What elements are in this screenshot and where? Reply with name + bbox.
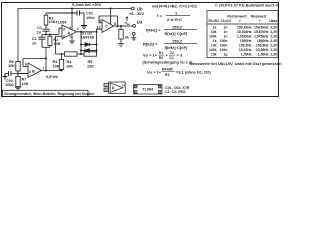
svg-text:1,59Hz: 1,59Hz <box>241 53 252 57</box>
svg-text:159,2Hz: 159,2Hz <box>239 44 252 48</box>
op-amp U1B <box>18 59 62 78</box>
svg-text:100n: 100n <box>86 16 95 20</box>
svg-text:1,592kHz: 1,592kHz <box>237 35 252 39</box>
svg-text:15,92Hz: 15,92Hz <box>239 48 252 52</box>
node supply junction <box>71 8 73 10</box>
svg-text:Messwerte bei Ub=10V, Uass mit: Messwerte bei Ub=10V, Uass mit Oszi geme… <box>190 61 283 66</box>
resistor R8 <box>118 26 124 47</box>
svg-text:f[kHz]·C[nF]: f[kHz]·C[nF] <box>165 45 189 50</box>
symbol sine arrow <box>125 17 130 25</box>
resistor R1 <box>44 13 48 29</box>
svg-text:15,92kHz: 15,92kHz <box>237 30 252 34</box>
svg-text:7: 7 <box>43 67 45 71</box>
svg-text:11: 11 <box>70 35 74 39</box>
svg-text:Rechenwert: Rechenwert <box>227 15 247 19</box>
wire left Ub drop <box>17 9 19 62</box>
svg-text:= 3: = 3 <box>177 53 183 58</box>
svg-text:R3: R3 <box>53 60 58 64</box>
wire midrail node <box>11 73 28 75</box>
svg-text:(Schwingbedingung Vu ≥ 3): (Schwingbedingung Vu ≥ 3) <box>143 61 193 65</box>
svg-text:100n: 100n <box>220 48 228 52</box>
svg-text:R4+R5: R4+R5 <box>162 68 173 72</box>
svg-text:10k: 10k <box>211 30 217 34</box>
svg-text:2,3V: 2,3V <box>270 26 278 30</box>
svg-text:C1, C2: FKS: C1, C2: FKS <box>165 90 186 94</box>
svg-text:C1=C2: C1=C2 <box>221 19 232 23</box>
svg-text:+6...30V: +6...30V <box>129 11 144 16</box>
svg-text:10K: 10K <box>22 82 29 86</box>
svg-text:R1: R1 <box>159 51 163 55</box>
svg-text:10K: 10K <box>53 65 60 69</box>
svg-text:R3: R3 <box>165 73 169 77</box>
svg-text:C2: C2 <box>32 37 37 41</box>
resistor R3 <box>59 54 63 72</box>
svg-text:C: C <box>105 25 108 29</box>
svg-text:Vu = 1+: Vu = 1+ <box>147 70 162 75</box>
caption box <box>3 90 89 96</box>
svg-text:2,3V: 2,3V <box>270 35 278 39</box>
svg-text:C02: C02 <box>6 79 13 83</box>
svg-text:1: 1 <box>77 27 79 31</box>
wire C2 R2 to buffered midrail <box>42 47 50 59</box>
wire diode branch verticals <box>80 31 97 54</box>
svg-text:≈3,1 (ohne D1, D2): ≈3,1 (ohne D1, D2) <box>176 70 211 75</box>
op-amp U1A <box>56 9 77 45</box>
capacitor C02 <box>3 71 11 80</box>
svg-text:Ua: Ua <box>137 20 143 25</box>
svg-text:mit R=R1=R2, C=C1=C2: mit R=R1=R2, C=C1=C2 <box>152 4 198 9</box>
capacitor C2 <box>39 35 46 48</box>
svg-text:Uass: Uass <box>269 19 277 23</box>
SCHEMATIC <box>18 8 131 62</box>
svg-text:9: 9 <box>99 19 101 23</box>
svg-text:6: 6 <box>25 63 27 67</box>
wire opamp A output <box>77 29 103 33</box>
svg-text:f[kHz] =: f[kHz] = <box>146 28 161 33</box>
svg-text:1n: 1n <box>224 35 228 39</box>
svg-text:13: 13 <box>104 88 108 92</box>
IC package TL084 <box>134 85 163 95</box>
svg-text:15,58Hz: 15,58Hz <box>256 48 269 52</box>
svg-text:100n: 100n <box>5 83 14 87</box>
svg-text:1k: 1k <box>213 39 217 43</box>
svg-text:TL084: TL084 <box>56 21 68 25</box>
svg-text:1k: 1k <box>213 26 217 30</box>
terminal Ua <box>133 25 136 28</box>
wire Ub rail <box>18 8 131 10</box>
svg-text:R7: R7 <box>22 77 27 81</box>
svg-text:R5: R5 <box>88 60 93 64</box>
svg-text:Vu = 1+: Vu = 1+ <box>143 53 158 58</box>
resistor R5 <box>84 52 97 56</box>
svg-text:0,5*Ub: 0,5*Ub <box>46 75 58 79</box>
svg-text:2: 2 <box>63 35 65 39</box>
resistor R6 <box>16 62 20 75</box>
svg-text:2,3V: 2,3V <box>270 48 278 52</box>
svg-text:1µ: 1µ <box>224 53 228 57</box>
wire gain leg <box>56 36 65 55</box>
svg-text:© 2015-01-07 P.E.Burkhardt mec: © 2015-01-07 P.E.Burkhardt mec1-9 <box>215 4 278 8</box>
svg-text:1n: 1n <box>37 30 42 34</box>
svg-text:159,2kHz: 159,2kHz <box>237 26 252 30</box>
svg-text:159,2: 159,2 <box>172 39 183 44</box>
svg-text:2,3V: 2,3V <box>270 39 278 43</box>
svg-text:1,56Hz: 1,56Hz <box>258 53 269 57</box>
svg-text:R[kΩ]·C[nF]: R[kΩ]·C[nF] <box>165 31 188 36</box>
svg-text:14: 14 <box>122 84 126 88</box>
svg-text:12K: 12K <box>87 65 94 69</box>
capacitor C01 <box>46 11 87 29</box>
svg-text:Messwert: Messwert <box>251 15 267 19</box>
svg-text:R1=R2: R1=R2 <box>209 19 220 23</box>
border frame <box>2 3 279 97</box>
svg-text:2,3V: 2,3V <box>270 53 278 57</box>
svg-text:100k: 100k <box>209 48 217 52</box>
svg-text:10k: 10k <box>211 44 217 48</box>
svg-text:C1: C1 <box>37 26 42 30</box>
svg-text:12: 12 <box>104 83 108 87</box>
svg-text:159,2: 159,2 <box>172 25 183 30</box>
terminal GND out <box>131 32 136 40</box>
svg-text:8: 8 <box>114 22 116 26</box>
wire Wien node <box>42 28 62 35</box>
svg-text:1n: 1n <box>224 30 228 34</box>
svg-text:3: 3 <box>63 28 65 32</box>
diode D2 <box>80 49 98 53</box>
svg-text:1580Hz: 1580Hz <box>257 39 269 43</box>
svg-text:1,575kHz: 1,575kHz <box>254 35 269 39</box>
label package pins <box>135 85 161 94</box>
svg-text:2,3V: 2,3V <box>270 44 278 48</box>
svg-text:10K: 10K <box>54 42 61 46</box>
svg-text:10k: 10k <box>211 53 217 57</box>
svg-text:B: B <box>32 70 35 74</box>
terminal Ub <box>131 7 134 10</box>
svg-text:100n: 100n <box>220 44 228 48</box>
svg-text:156,8Hz: 156,8Hz <box>256 44 269 48</box>
svg-text:C01: C01 <box>86 12 93 16</box>
svg-text:R[kΩ] =: R[kΩ] = <box>143 42 158 47</box>
svg-text:1n: 1n <box>224 26 228 30</box>
svg-text:R2: R2 <box>159 56 163 60</box>
resistor R2 <box>48 35 52 48</box>
op-amp U1D pinout <box>104 82 125 93</box>
svg-text:15,67kHz: 15,67kHz <box>254 30 269 34</box>
svg-text:1n: 1n <box>32 42 37 46</box>
svg-text:1592Hz: 1592Hz <box>240 39 252 43</box>
svg-text:f =: f = <box>157 13 162 18</box>
resistor R4 <box>65 52 85 56</box>
svg-text:5: 5 <box>29 70 31 74</box>
svg-text:2·π·R·C: 2·π·R·C <box>167 17 182 22</box>
diode D1 <box>80 43 98 47</box>
capacitor C1 <box>43 29 50 34</box>
svg-text:10K: 10K <box>8 64 15 68</box>
svg-text:C2: C2 <box>170 51 174 55</box>
resistor R7 <box>15 74 21 91</box>
svg-text:10K: 10K <box>66 65 73 69</box>
table rows <box>209 26 278 57</box>
svg-text:10: 10 <box>97 26 101 30</box>
TABLE <box>207 11 278 58</box>
svg-text:100n: 100n <box>220 39 228 43</box>
svg-text:Sinusgenerator, Wien-Brücke, R: Sinusgenerator, Wien-Brücke, Regelung mi… <box>4 92 95 96</box>
svg-text:2,2V: 2,2V <box>270 30 278 34</box>
wire output Ua <box>118 25 133 27</box>
op-amp U1C <box>99 8 119 33</box>
svg-text:TL084: TL084 <box>142 88 154 92</box>
svg-text:C1: C1 <box>170 56 174 60</box>
svg-text:D: D <box>112 86 115 90</box>
svg-text:9,2mA bei +20V: 9,2mA bei +20V <box>72 2 102 7</box>
svg-text:1N4148: 1N4148 <box>81 36 94 40</box>
svg-text:100k: 100k <box>209 35 217 39</box>
svg-text:158,6kHz: 158,6kHz <box>254 26 269 30</box>
